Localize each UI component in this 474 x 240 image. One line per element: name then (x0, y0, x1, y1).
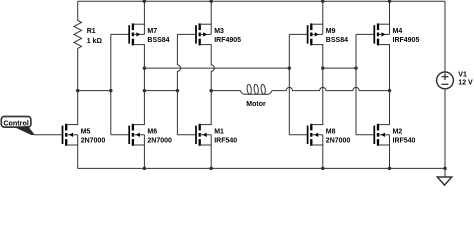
label M3 (214, 28, 241, 44)
wire +12V top rail (78, 0, 445, 2)
transistor M8 (308, 124, 324, 146)
transistor M6 (129, 124, 145, 146)
svg-text:12 V: 12 V (458, 80, 473, 87)
transistor M7 (129, 23, 145, 45)
transistor M2 (374, 124, 390, 146)
inductor Motor (211, 84, 272, 94)
node A upper junction (143, 66, 147, 70)
svg-text:M8: M8 (326, 129, 336, 136)
label M4 (393, 28, 420, 44)
node M2 source rail (388, 167, 392, 171)
wire M5 source to ground rail (77, 145, 79, 168)
label M9 (326, 28, 348, 44)
wire Control to M5 gate (34, 134, 63, 136)
node M3 drain rail (209, 0, 213, 3)
node M9 drain rail (321, 0, 325, 3)
label M6 (147, 129, 172, 145)
label Motor (246, 101, 266, 108)
wire M7 drain to +12V (143, 1, 145, 24)
svg-text:M9: M9 (326, 28, 336, 35)
label M1 (214, 129, 237, 145)
svg-text:IRF4905: IRF4905 (214, 37, 241, 44)
node M7 drain rail (143, 0, 147, 3)
node gate vertical 1 junction (109, 89, 113, 93)
ground (437, 177, 451, 185)
node V1 negative rail junction (443, 167, 447, 171)
wire node C to M4/M2 gates (323, 67, 356, 69)
wire M3 gate to M1 gate vertical (177, 34, 196, 134)
wire M4 gate to M2 gate vertical (356, 34, 374, 134)
svg-text:V1: V1 (458, 72, 467, 79)
wire M9 drain to +12V (322, 1, 324, 24)
svg-text:BSS84: BSS84 (147, 37, 169, 44)
node M4 drain rail (388, 0, 392, 3)
svg-text:M7: M7 (147, 28, 157, 35)
wire node A to M3/M1 gates (144, 90, 177, 92)
node M8 source rail (321, 167, 325, 171)
node A lower junction (143, 89, 147, 93)
transistor M4 (374, 23, 390, 45)
svg-text:2N7000: 2N7000 (147, 137, 172, 144)
svg-text:Control: Control (3, 118, 29, 127)
voltage source V1 (437, 1, 454, 177)
wire node INV to M7/M6 gates (78, 90, 111, 92)
node gate vertical 3 junction (288, 66, 292, 70)
wire M5 drain up to node INV (77, 91, 79, 125)
node C upper junction (321, 66, 325, 70)
wire M9 gate to M8 gate vertical (289, 34, 307, 134)
label R1 value (87, 28, 103, 45)
wire M7 gate to M6 gate vertical (111, 34, 129, 134)
svg-text:R1: R1 (87, 28, 96, 35)
node gate vertical 2 junction (176, 89, 180, 93)
svg-text:1 kΩ: 1 kΩ (87, 38, 103, 45)
wire M2 source to ground rail (389, 145, 391, 168)
svg-text:Motor: Motor (246, 101, 266, 108)
wire M9 source to M8 drain (322, 45, 324, 125)
wire M7 source to M6 drain (143, 45, 145, 125)
node gate vertical 4 junction (354, 66, 358, 70)
wire M3 drain to +12V (210, 1, 212, 24)
svg-text:IRF4905: IRF4905 (393, 37, 420, 44)
wire M8 source to ground rail (322, 145, 324, 168)
wire node A to M9/M8 gates (144, 67, 289, 69)
svg-text:M5: M5 (81, 129, 91, 136)
node R1-M5 drain junction (76, 89, 80, 93)
label M5 (81, 129, 106, 145)
net flag Control (1, 117, 34, 136)
svg-text:IRF540: IRF540 (393, 137, 416, 144)
node B motor left junction (209, 89, 213, 93)
label M2 (393, 129, 416, 145)
transistor M1 (196, 124, 212, 146)
transistor M9 (308, 23, 324, 45)
label M8 (326, 129, 351, 145)
wire M4 drain to +12V (389, 1, 391, 24)
wire M1 source to ground rail (210, 145, 212, 168)
node M1 source rail (209, 167, 213, 171)
svg-text:M2: M2 (393, 129, 403, 136)
svg-text:M1: M1 (214, 129, 224, 136)
svg-text:2N7000: 2N7000 (81, 137, 106, 144)
svg-text:M6: M6 (147, 129, 157, 136)
svg-text:M3: M3 (214, 28, 224, 35)
resistor R1 (74, 1, 82, 90)
wire ground bottom rail (78, 167, 445, 169)
svg-text:BSS84: BSS84 (326, 37, 348, 44)
wire Motor to node D (272, 87, 390, 90)
svg-text:IRF540: IRF540 (214, 137, 237, 144)
label V1 (458, 72, 473, 87)
node D motor right junction (388, 89, 392, 93)
wire M6 source to ground rail (143, 145, 145, 168)
wire M4 source to M2 drain (389, 45, 391, 125)
node M6 source rail (143, 167, 147, 171)
transistor M3 (196, 23, 212, 45)
svg-text:M4: M4 (393, 28, 403, 35)
transistor M5 (63, 124, 79, 146)
label M7 (147, 28, 169, 44)
svg-text:2N7000: 2N7000 (326, 137, 351, 144)
wire M3 source to M1 drain (211, 45, 214, 125)
